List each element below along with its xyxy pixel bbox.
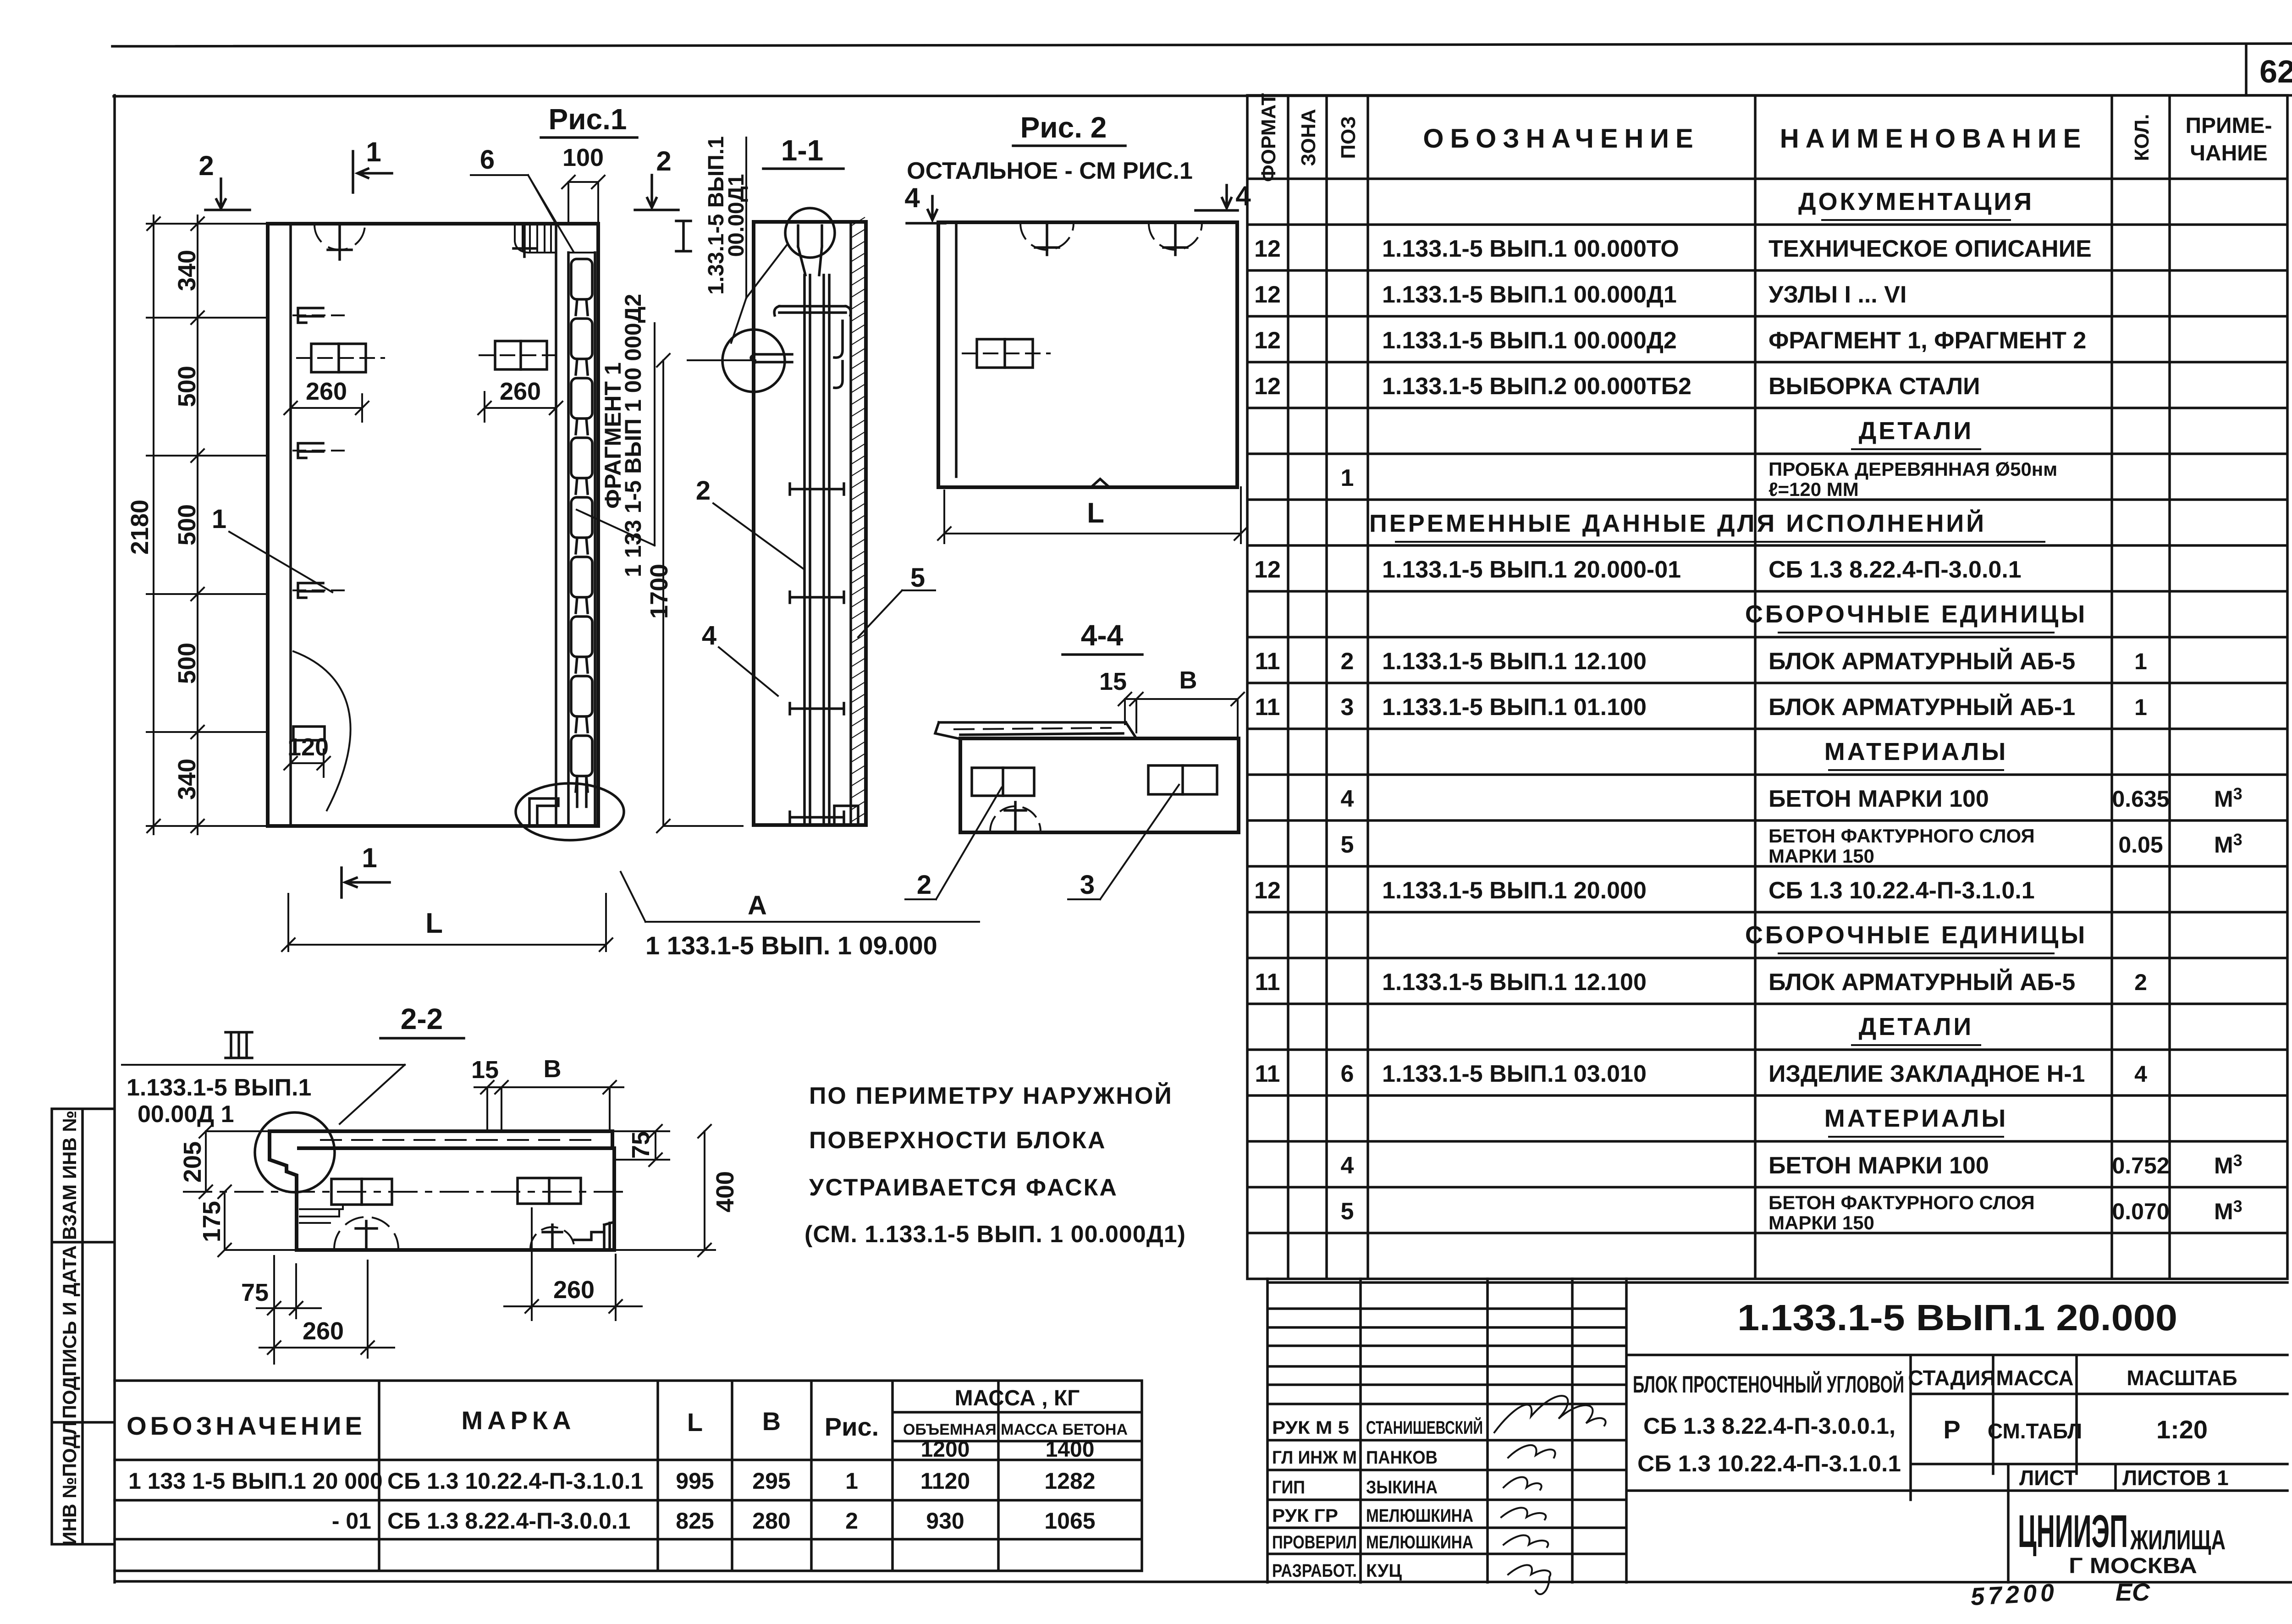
- bottom oval detail mark: [516, 783, 624, 840]
- svg-text:11: 11: [1255, 648, 1280, 675]
- svg-text:4: 4: [904, 182, 920, 213]
- embedded plate right: [495, 341, 547, 369]
- svg-text:1700: 1700: [645, 564, 673, 619]
- svg-text:5: 5: [910, 563, 925, 593]
- svg-text:120: 120: [287, 733, 329, 761]
- opening left 4-4: [972, 768, 1034, 796]
- panel inner edge line: [289, 224, 292, 826]
- svg-text:62: 62: [2259, 54, 2292, 89]
- svg-text:12: 12: [1254, 327, 1281, 354]
- axis line: [688, 359, 755, 361]
- svg-text:ТЕХНИЧЕСКОЕ ОПИСАНИЕ: ТЕХНИЧЕСКОЕ ОПИСАНИЕ: [1769, 236, 2092, 262]
- dim 260 bottom: [259, 1261, 394, 1358]
- small T mark near corner recess: [513, 226, 535, 257]
- svg-text:100: 100: [562, 144, 604, 171]
- svg-text:БЛОК АРМАТУРНЫЙ АБ-5: БЛОК АРМАТУРНЫЙ АБ-5: [1769, 969, 2075, 996]
- dim 260 right: [478, 392, 562, 422]
- svg-text:РАЗРАБОТ.: РАЗРАБОТ.: [1272, 1561, 1357, 1581]
- svg-text:2180: 2180: [126, 500, 154, 555]
- corner step right 2-2: [574, 1222, 614, 1250]
- Рис.2 panel outline: [938, 222, 1237, 487]
- svg-text:2: 2: [1341, 648, 1354, 675]
- svg-text:ИЗДЕЛИЕ ЗАКЛАДНОЕ Н-1: ИЗДЕЛИЕ ЗАКЛАДНОЕ Н-1: [1769, 1061, 2085, 1087]
- svg-text:Рис.1: Рис.1: [549, 103, 627, 136]
- svg-text:ПРОВЕРИЛ: ПРОВЕРИЛ: [1272, 1532, 1357, 1552]
- svg-text:500: 500: [173, 643, 201, 684]
- svg-text:4: 4: [1235, 181, 1251, 211]
- joint steps under plate: [300, 1205, 343, 1223]
- svg-text:1.133.1-5 ВЫП.1 20.000: 1.133.1-5 ВЫП.1 20.000: [1382, 877, 1647, 904]
- svg-text:1.133.1-5 ВЫП.1 00.000Д1: 1.133.1-5 ВЫП.1 00.000Д1: [1382, 281, 1677, 308]
- dim 120: [284, 749, 330, 777]
- svg-text:БЛОК АРМАТУРНЫЙ АБ-1: БЛОК АРМАТУРНЫЙ АБ-1: [1769, 694, 2075, 721]
- svg-text:500: 500: [173, 366, 201, 407]
- dim chain 340/500/500/500/340: [191, 215, 204, 834]
- svg-text:СБ 1.3 8.22.4-П-3.0.0.1: СБ 1.3 8.22.4-П-3.0.0.1: [1769, 556, 2022, 583]
- svg-text:57200: 57200: [1970, 1579, 2058, 1611]
- svg-text:СБОРОЧНЫЕ ЕДИНИЦЫ: СБОРОЧНЫЕ ЕДИНИЦЫ: [1745, 921, 2087, 949]
- left margin stamp boxes: [52, 1109, 114, 1544]
- svg-text:СБОРОЧНЫЕ ЕДИНИЦЫ: СБОРОЧНЫЕ ЕДИНИЦЫ: [1745, 600, 2087, 628]
- svg-text:L: L: [425, 908, 443, 939]
- svg-text:ЛИСТОВ 1: ЛИСТОВ 1: [2122, 1466, 2229, 1490]
- svg-text:1.133.1-5 ВЫП.1 12.100: 1.133.1-5 ВЫП.1 12.100: [1382, 969, 1647, 996]
- svg-text:2: 2: [656, 146, 671, 176]
- bottom arc right 2-2: [530, 1227, 574, 1249]
- svg-text:МАРКА: МАРКА: [461, 1406, 575, 1435]
- svg-text:СБ 1.3 10.22.4-П-3.1.0.1: СБ 1.3 10.22.4-П-3.1.0.1: [1769, 877, 2035, 904]
- extension lines left: [147, 224, 268, 826]
- svg-text:12: 12: [1254, 877, 1281, 904]
- svg-text:1 133.1-5 ВЫП. 1 09.000: 1 133.1-5 ВЫП. 1 09.000: [645, 931, 937, 960]
- svg-text:УЗЛЫ I ... VI: УЗЛЫ I ... VI: [1769, 281, 1906, 308]
- svg-text:ЛИСТ: ЛИСТ: [2019, 1466, 2077, 1490]
- svg-text:МАРКИ 150: МАРКИ 150: [1769, 1212, 1874, 1233]
- svg-text:В: В: [1179, 666, 1197, 694]
- svg-text:825: 825: [676, 1508, 714, 1534]
- svg-text:175: 175: [198, 1201, 226, 1242]
- svg-text:ПРОБКА ДЕРЕВЯННАЯ Ø50нм: ПРОБКА ДЕРЕВЯННАЯ Ø50нм: [1769, 458, 2057, 480]
- node mark I: [676, 221, 691, 251]
- svg-text:ПРИМЕ-: ПРИМЕ-: [2186, 114, 2272, 138]
- svg-text:2: 2: [198, 150, 214, 181]
- svg-text:295: 295: [752, 1468, 790, 1494]
- svg-text:75: 75: [627, 1131, 655, 1159]
- dim 260 right: [504, 1208, 642, 1320]
- block bottom 2-2: [297, 1148, 614, 1250]
- svg-text:2: 2: [2134, 969, 2147, 995]
- section 1-1 outline: [754, 222, 866, 825]
- svg-text:15: 15: [471, 1056, 499, 1084]
- svg-text:МАССА , КГ: МАССА , КГ: [955, 1386, 1080, 1410]
- svg-text:260: 260: [553, 1276, 595, 1304]
- opening right 4-4: [1148, 765, 1217, 794]
- svg-text:260: 260: [306, 378, 347, 405]
- svg-text:ФОРМАТ: ФОРМАТ: [1257, 93, 1280, 182]
- svg-text:МАСШТАБ: МАСШТАБ: [2127, 1366, 2237, 1390]
- svg-text:МАССА: МАССА: [1996, 1366, 2074, 1390]
- svg-text:340: 340: [173, 759, 201, 800]
- left hook bar: [751, 354, 792, 362]
- svg-text:БЕТОН МАРКИ 100: БЕТОН МАРКИ 100: [1769, 1152, 1989, 1179]
- dim 205: [199, 1125, 270, 1198]
- bottom notch 4-4: [990, 806, 1041, 831]
- left parameters table grid: [115, 1381, 1142, 1571]
- dim 260 left: [284, 394, 369, 422]
- svg-text:РУК ГР: РУК ГР: [1272, 1506, 1338, 1526]
- svg-text:ПЕРЕМЕННЫЕ ДАННЫЕ ДЛЯ ИСПОЛНЕН: ПЕРЕМЕННЫЕ ДАННЫЕ ДЛЯ ИСПОЛНЕНИЙ: [1369, 509, 1986, 537]
- title block outline: [1267, 1279, 2287, 1582]
- specification table grid: [1247, 95, 2287, 1279]
- svg-text:Рис. 2: Рис. 2: [1020, 111, 1107, 144]
- svg-text:4: 4: [2134, 1061, 2147, 1087]
- svg-text:СБ 1.3 10.22.4-П-3.1.0.1: СБ 1.3 10.22.4-П-3.1.0.1: [387, 1468, 643, 1494]
- svg-text:0.752: 0.752: [2112, 1153, 2169, 1178]
- rebar funnel top: [798, 226, 822, 275]
- svg-text:НАИМЕНОВАНИЕ: НАИМЕНОВАНИЕ: [1780, 124, 2088, 154]
- embedded hooks item 1: [298, 308, 323, 323]
- svg-text:260: 260: [303, 1317, 344, 1345]
- Рис.2 bottom break: [1091, 479, 1109, 487]
- panel outline Рис.1: [268, 224, 598, 826]
- centerline 2-2: [184, 1191, 625, 1193]
- svg-text:МАТЕРИАЛЫ: МАТЕРИАЛЫ: [1824, 1105, 2008, 1132]
- svg-text:УСТРАИВАЕТСЯ ФАСКА: УСТРАИВАЕТСЯ ФАСКА: [809, 1174, 1118, 1201]
- dim L bottom: [282, 894, 612, 951]
- svg-text:(СМ. 1.133.1-5 ВЫП. 1 00.000Д1: (СМ. 1.133.1-5 ВЫП. 1 00.000Д1): [804, 1221, 1186, 1248]
- svg-text:1.133.1-5 ВЫП.1 12.100: 1.133.1-5 ВЫП.1 12.100: [1382, 648, 1647, 675]
- svg-text:340: 340: [173, 250, 201, 291]
- svg-text:ДОКУМЕНТАЦИЯ: ДОКУМЕНТАЦИЯ: [1798, 188, 2034, 215]
- svg-text:БЕТОН ФАКТУРНОГО СЛОЯ: БЕТОН ФАКТУРНОГО СЛОЯ: [1769, 1192, 2035, 1213]
- corner step 2-2: [270, 1131, 297, 1250]
- svg-text:5: 5: [1341, 831, 1354, 858]
- svg-text:ВЗАМ ИНВ №: ВЗАМ ИНВ №: [59, 1111, 80, 1240]
- svg-text:1:20: 1:20: [2156, 1415, 2208, 1444]
- svg-text:1120: 1120: [920, 1468, 970, 1494]
- svg-text:ПОДПИСЬ И ДАТА: ПОДПИСЬ И ДАТА: [59, 1245, 80, 1419]
- svg-text:1.133.1-5 ВЫП.1 00.000ТО: 1.133.1-5 ВЫП.1 00.000ТО: [1382, 236, 1679, 262]
- svg-text:L: L: [1087, 497, 1104, 529]
- detail circle left: [722, 330, 785, 392]
- svg-text:3: 3: [1080, 870, 1095, 900]
- svg-text:БЛОК АРМАТУРНЫЙ АБ-5: БЛОК АРМАТУРНЫЙ АБ-5: [1769, 648, 2075, 675]
- bent bars top: [774, 306, 851, 388]
- top-right corner recess: [515, 224, 556, 253]
- rebar chain in strip: [571, 259, 592, 299]
- svg-text:ДЕТАЛИ: ДЕТАЛИ: [1859, 417, 1973, 445]
- node mark III: [226, 1032, 252, 1058]
- svg-text:КОЛ.: КОЛ.: [2131, 114, 2153, 161]
- svg-text:1200: 1200: [921, 1437, 970, 1462]
- svg-text:12: 12: [1254, 373, 1281, 400]
- svg-text:12: 12: [1254, 556, 1281, 583]
- svg-text:6: 6: [1341, 1061, 1354, 1087]
- svg-text:2: 2: [696, 476, 711, 506]
- svg-text:ПО ПЕРИМЕТРУ НАРУЖНОЙ: ПО ПЕРИМЕТРУ НАРУЖНОЙ: [809, 1082, 1173, 1109]
- svg-text:11: 11: [1255, 694, 1280, 721]
- svg-text:ГЛ ИНЖ М: ГЛ ИНЖ М: [1272, 1448, 1357, 1468]
- svg-text:1065: 1065: [1044, 1508, 1095, 1534]
- svg-text:ЕС: ЕС: [2116, 1579, 2150, 1606]
- block body 4-4: [960, 738, 1239, 832]
- detail circle I top: [785, 208, 835, 258]
- svg-text:1.133.1-5 ВЫП.2 00.000ТБ2: 1.133.1-5 ВЫП.2 00.000ТБ2: [1382, 373, 1691, 400]
- svg-text:1: 1: [845, 1468, 858, 1494]
- facing ledge 4-4: [935, 722, 1136, 738]
- svg-text:Р: Р: [1943, 1415, 1960, 1444]
- svg-text:1: 1: [362, 842, 377, 873]
- svg-text:- 01: - 01: [332, 1508, 371, 1534]
- dim 1700: [657, 354, 743, 832]
- svg-text:1: 1: [1341, 465, 1354, 491]
- corner bracket bottom: [834, 806, 858, 824]
- svg-text:БЛОК ПРОСТЕНОЧНЫЙ УГЛОВОЙ: БЛОК ПРОСТЕНОЧНЫЙ УГЛОВОЙ: [1633, 1371, 1904, 1398]
- svg-text:МАРКИ 150: МАРКИ 150: [1769, 845, 1874, 867]
- svg-text:ℓ=120 ММ: ℓ=120 ММ: [1769, 479, 1859, 500]
- svg-text:1.133.1-5 ВЫП.1: 1.133.1-5 ВЫП.1: [127, 1074, 311, 1101]
- svg-text:0.05: 0.05: [2118, 832, 2163, 858]
- svg-text:1: 1: [2134, 694, 2147, 720]
- detail A reference: [621, 872, 979, 922]
- svg-text:БЕТОН ФАКТУРНОГО СЛОЯ: БЕТОН ФАКТУРНОГО СЛОЯ: [1769, 825, 2035, 847]
- svg-text:1.133.1-5 ВЫП.1 20.000-01: 1.133.1-5 ВЫП.1 20.000-01: [1382, 556, 1681, 583]
- facing layer hatch: [852, 217, 865, 821]
- svg-text:1282: 1282: [1044, 1468, 1095, 1494]
- svg-text:КУЦ: КУЦ: [1366, 1561, 1402, 1581]
- svg-text:РУК М 5: РУК М 5: [1272, 1418, 1349, 1438]
- svg-text:В: В: [544, 1055, 562, 1083]
- svg-text:0.070: 0.070: [2112, 1199, 2169, 1224]
- dim 75 top right 2-2: [612, 1125, 669, 1166]
- signature scribbles: [1494, 1396, 1606, 1594]
- svg-text:СБ 1.3 8.22.4-П-3.0.0.1,: СБ 1.3 8.22.4-П-3.0.0.1,: [1643, 1413, 1895, 1439]
- svg-text:2: 2: [845, 1508, 858, 1534]
- svg-text:СБ 1.3 8.22.4-П-3.0.0.1: СБ 1.3 8.22.4-П-3.0.0.1: [387, 1508, 631, 1534]
- svg-text:ОБОЗНАЧЕНИЕ: ОБОЗНАЧЕНИЕ: [1423, 124, 1699, 154]
- svg-text:1: 1: [212, 504, 226, 534]
- svg-text:00.00Д1: 00.00Д1: [724, 174, 749, 257]
- svg-text:СТАНИШЕВСКИЙ: СТАНИШЕВСКИЙ: [1366, 1417, 1483, 1438]
- svg-text:3: 3: [1341, 694, 1354, 721]
- svg-text:МАТЕРИАЛЫ: МАТЕРИАЛЫ: [1824, 738, 2008, 765]
- embedded bottom plate 120: [293, 727, 325, 740]
- svg-text:400: 400: [711, 1171, 739, 1212]
- dim 100 top: [562, 176, 605, 224]
- svg-text:МЕЛЮШКИНА: МЕЛЮШКИНА: [1366, 1532, 1473, 1552]
- svg-text:4: 4: [702, 621, 716, 650]
- svg-text:500: 500: [173, 504, 201, 545]
- svg-text:11: 11: [1255, 1061, 1280, 1087]
- svg-text:Рис.: Рис.: [825, 1412, 879, 1441]
- svg-text:БЕТОН МАРКИ 100: БЕТОН МАРКИ 100: [1769, 786, 1989, 812]
- svg-text:15: 15: [1099, 668, 1127, 695]
- svg-text:1.133.1-5 ВЫП.1 00.000Д2: 1.133.1-5 ВЫП.1 00.000Д2: [1382, 327, 1677, 354]
- svg-text:В: В: [762, 1407, 781, 1436]
- svg-text:260: 260: [500, 378, 541, 405]
- svg-text:4-4: 4-4: [1081, 619, 1124, 652]
- svg-text:1400: 1400: [1046, 1437, 1095, 1462]
- rebar verticals: [804, 275, 829, 823]
- svg-text:12: 12: [1254, 281, 1281, 308]
- svg-text:4: 4: [1341, 1152, 1354, 1179]
- embedded plate left: [311, 344, 366, 372]
- dim 400: [614, 1125, 715, 1256]
- Рис.2 T-notch left: [1020, 223, 1074, 250]
- chamfer wavy line: [293, 651, 351, 810]
- dim 2180 line: [147, 215, 160, 834]
- detail ref label 2-2: [122, 1065, 405, 1124]
- svg-text:A: A: [748, 891, 767, 920]
- dim 175: [184, 1185, 297, 1256]
- svg-text:ЖИЛИЩА: ЖИЛИЩА: [2130, 1525, 2226, 1555]
- svg-text:Г МОСКВА: Г МОСКВА: [2069, 1554, 2197, 1578]
- embedded plates 2-2: [331, 1179, 392, 1205]
- right reinforcement strip lines: [556, 224, 595, 826]
- svg-text:ОБЪЕМНАЯ МАССА БЕТОНА: ОБЪЕМНАЯ МАССА БЕТОНА: [903, 1421, 1128, 1438]
- svg-text:ОСТАЛЬНОЕ - СМ РИС.1: ОСТАЛЬНОЕ - СМ РИС.1: [907, 158, 1193, 184]
- svg-text:1.133.1-5 ВЫП.1 01.100: 1.133.1-5 ВЫП.1 01.100: [1382, 694, 1647, 721]
- svg-text:5: 5: [1341, 1198, 1354, 1225]
- svg-text:ВЫБОРКА СТАЛИ: ВЫБОРКА СТАЛИ: [1769, 373, 1980, 400]
- svg-text:МЕЛЮШКИНА: МЕЛЮШКИНА: [1366, 1506, 1473, 1526]
- svg-text:6: 6: [480, 145, 495, 175]
- svg-text:ПАНКОВ: ПАНКОВ: [1366, 1448, 1438, 1468]
- sheet top edge line: [112, 44, 2292, 46]
- svg-text:ФРАГМЕНТ 1, ФРАГМЕНТ 2: ФРАГМЕНТ 1, ФРАГМЕНТ 2: [1769, 327, 2086, 354]
- Рис.2 dim L: [938, 487, 1247, 543]
- svg-text:ЗОНА: ЗОНА: [1297, 109, 1320, 166]
- svg-text:ГИП: ГИП: [1272, 1477, 1305, 1497]
- svg-text:12: 12: [1254, 236, 1281, 262]
- svg-text:1: 1: [2134, 649, 2147, 674]
- svg-text:4: 4: [1341, 786, 1354, 812]
- svg-text:ЦНИИЭП: ЦНИИЭП: [2018, 1506, 2128, 1557]
- svg-text:2: 2: [917, 870, 931, 900]
- top-left T-notch: [314, 225, 365, 250]
- svg-text:ПОВЕРХНОСТИ БЛОКА: ПОВЕРХНОСТИ БЛОКА: [809, 1127, 1107, 1154]
- svg-text:L: L: [687, 1408, 703, 1437]
- svg-text:280: 280: [752, 1508, 790, 1534]
- svg-text:0.635: 0.635: [2112, 786, 2169, 812]
- rebar crossbars: [790, 484, 844, 495]
- svg-text:00.00Д 1: 00.00Д 1: [138, 1101, 234, 1128]
- Рис.2 embedded plate: [977, 339, 1033, 368]
- detail circle 2-2: [255, 1112, 335, 1192]
- svg-text:ЗЫКИНА: ЗЫКИНА: [1366, 1477, 1438, 1497]
- svg-text:995: 995: [676, 1468, 714, 1494]
- svg-text:205: 205: [179, 1141, 206, 1183]
- svg-text:ИНВ №ПОДЛ: ИНВ №ПОДЛ: [59, 1421, 80, 1545]
- svg-text:СТАДИЯ: СТАДИЯ: [1908, 1366, 1995, 1390]
- svg-text:СБ 1.3 10.22.4-П-3.1.0.1: СБ 1.3 10.22.4-П-3.1.0.1: [1637, 1451, 1901, 1476]
- svg-text:75: 75: [241, 1279, 269, 1306]
- bottom arc left 2-2: [334, 1217, 398, 1249]
- page number box: [2245, 45, 2248, 95]
- svg-text:1-1: 1-1: [781, 134, 824, 167]
- svg-text:2-2: 2-2: [401, 1002, 443, 1035]
- top strip 2-2: [270, 1131, 612, 1148]
- svg-text:1.133.1-5 ВЫП.1 03.010: 1.133.1-5 ВЫП.1 03.010: [1382, 1061, 1647, 1087]
- svg-text:11: 11: [1255, 969, 1280, 996]
- svg-text:930: 930: [926, 1508, 964, 1534]
- svg-text:1: 1: [366, 137, 381, 167]
- svg-text:ЧАНИЕ: ЧАНИЕ: [2190, 141, 2268, 165]
- svg-text:ПОЗ: ПОЗ: [1337, 116, 1360, 159]
- svg-text:СМ.ТАБЛ: СМ.ТАБЛ: [1988, 1419, 2082, 1443]
- svg-text:ОБОЗНАЧЕНИЕ: ОБОЗНАЧЕНИЕ: [127, 1411, 366, 1440]
- svg-text:1 133 1-5 ВЫП.1 20 000: 1 133 1-5 ВЫП.1 20 000: [128, 1468, 383, 1494]
- svg-text:ДЕТАЛИ: ДЕТАЛИ: [1859, 1013, 1973, 1040]
- svg-text:1.133.1-5 ВЫП.1 20.000: 1.133.1-5 ВЫП.1 20.000: [1737, 1297, 2177, 1338]
